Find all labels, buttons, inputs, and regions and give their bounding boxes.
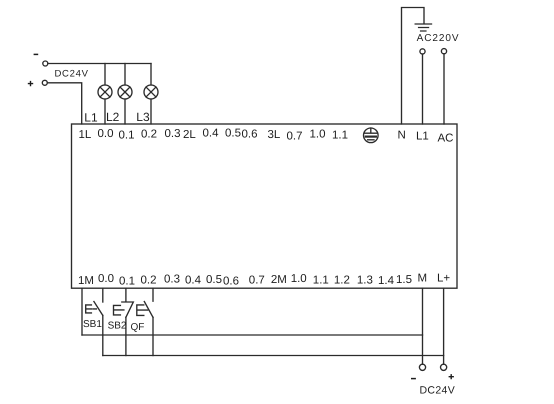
svg-text:0.2: 0.2	[141, 275, 157, 287]
terminal - (bottom DC24V)	[419, 364, 425, 370]
terminal AC circle (AC220V)	[441, 49, 446, 54]
svg-text:1.0: 1.0	[310, 128, 326, 140]
svg-text:0.3: 0.3	[164, 273, 180, 285]
svg-text:0.0: 0.0	[98, 273, 114, 285]
wire: lamp L2 branch	[124, 64, 126, 125]
wire: terminal N up and over to earth	[402, 8, 425, 125]
svg-text:0.7: 0.7	[287, 130, 303, 142]
wire: bus2 switches common to L+	[103, 355, 444, 357]
svg-text:1.4: 1.4	[378, 275, 395, 287]
svg-text:1L: 1L	[79, 129, 92, 141]
pushbutton SB2 (NC contact)	[114, 302, 134, 317]
breaker contact QF (NO)	[137, 302, 153, 318]
wire: terminal 1M down	[81, 288, 83, 335]
svg-text:1.3: 1.3	[357, 275, 373, 287]
svg-text:0.2: 0.2	[141, 129, 157, 141]
svg-text:1.2: 1.2	[334, 275, 350, 287]
svg-text:SB2: SB2	[108, 321, 127, 332]
svg-text:AC220V: AC220V	[417, 33, 460, 44]
wire: SB2 to bus2	[125, 317, 127, 355]
polarity label - (bottom DC24V)	[411, 378, 416, 380]
svg-text:1.1: 1.1	[332, 129, 348, 141]
svg-text:1M: 1M	[78, 275, 94, 287]
terminal L1 circle (AC220V)	[420, 49, 425, 54]
svg-text:0.1: 0.1	[119, 275, 135, 287]
ground (earth symbol top-right)	[415, 24, 431, 31]
svg-text:L3: L3	[136, 110, 150, 124]
wire: lamp L3 branch	[150, 64, 152, 125]
svg-text:0.7: 0.7	[249, 274, 265, 286]
svg-text:1.1: 1.1	[313, 274, 329, 286]
svg-text:L+: L+	[437, 273, 450, 285]
wire: AC220V AC to terminal AC	[443, 54, 445, 124]
PLC module outline	[72, 124, 458, 288]
lamp L2	[118, 85, 132, 99]
svg-text:0.6: 0.6	[223, 275, 239, 287]
svg-text:0.5: 0.5	[225, 127, 241, 139]
wire: terminal L+ down to DC24V plus	[443, 288, 445, 364]
terminal + (bottom DC24V)	[441, 364, 447, 370]
svg-text:DC24V: DC24V	[55, 68, 89, 79]
wire: QF to bus2	[152, 317, 154, 355]
svg-text:1.0: 1.0	[291, 273, 307, 285]
wire: input 0.2 to QF	[152, 288, 154, 301]
svg-text:L1: L1	[84, 111, 98, 125]
svg-text:0.3: 0.3	[165, 128, 181, 140]
svg-text:0.6: 0.6	[242, 128, 258, 140]
svg-text:0.4: 0.4	[203, 127, 220, 139]
svg-text:L1: L1	[416, 131, 429, 143]
polarity label + (top-left)	[28, 81, 33, 86]
lamp L3	[144, 85, 158, 99]
svg-text:N: N	[398, 130, 406, 142]
svg-text:0.5: 0.5	[206, 274, 222, 286]
wire: input 0.1 to SB2	[125, 288, 127, 301]
wire: DC24V plus to terminal 1L	[47, 83, 81, 124]
lamp L1	[98, 85, 112, 99]
svg-text:0.0: 0.0	[98, 128, 114, 140]
protective earth terminal symbol (top row)	[364, 128, 379, 143]
svg-text:0.1: 0.1	[119, 130, 135, 142]
pushbutton SB1 (NO contact)	[86, 302, 103, 316]
svg-text:1.5: 1.5	[396, 274, 412, 286]
svg-text:M: M	[418, 273, 428, 285]
svg-text:2M: 2M	[271, 274, 287, 286]
svg-text:2L: 2L	[183, 129, 196, 141]
polarity label + (bottom DC24V)	[449, 374, 454, 379]
wire: bus 1M to M	[82, 334, 423, 336]
wire: terminal M down to DC24V minus	[422, 288, 424, 364]
polarity label - (top-left)	[34, 53, 39, 55]
svg-text:QF: QF	[131, 322, 145, 333]
wire: SB1 to bus2	[102, 315, 104, 355]
svg-text:SB1: SB1	[83, 319, 102, 330]
wire: lamp L1 branch	[104, 64, 106, 125]
svg-text:DC24V: DC24V	[420, 385, 456, 397]
wire: DC24V minus bus to lamps	[48, 63, 151, 65]
svg-text:3L: 3L	[268, 129, 281, 141]
wire: AC220V L1 to terminal L1	[422, 54, 424, 124]
svg-text:AC: AC	[438, 133, 454, 145]
svg-text:0.4: 0.4	[185, 274, 202, 286]
svg-text:L2: L2	[106, 110, 120, 124]
wire: input 0.0 to SB1	[102, 288, 104, 302]
terminal - (top-left DC24V)	[43, 61, 48, 66]
terminal + (top-left DC24V)	[42, 80, 47, 85]
